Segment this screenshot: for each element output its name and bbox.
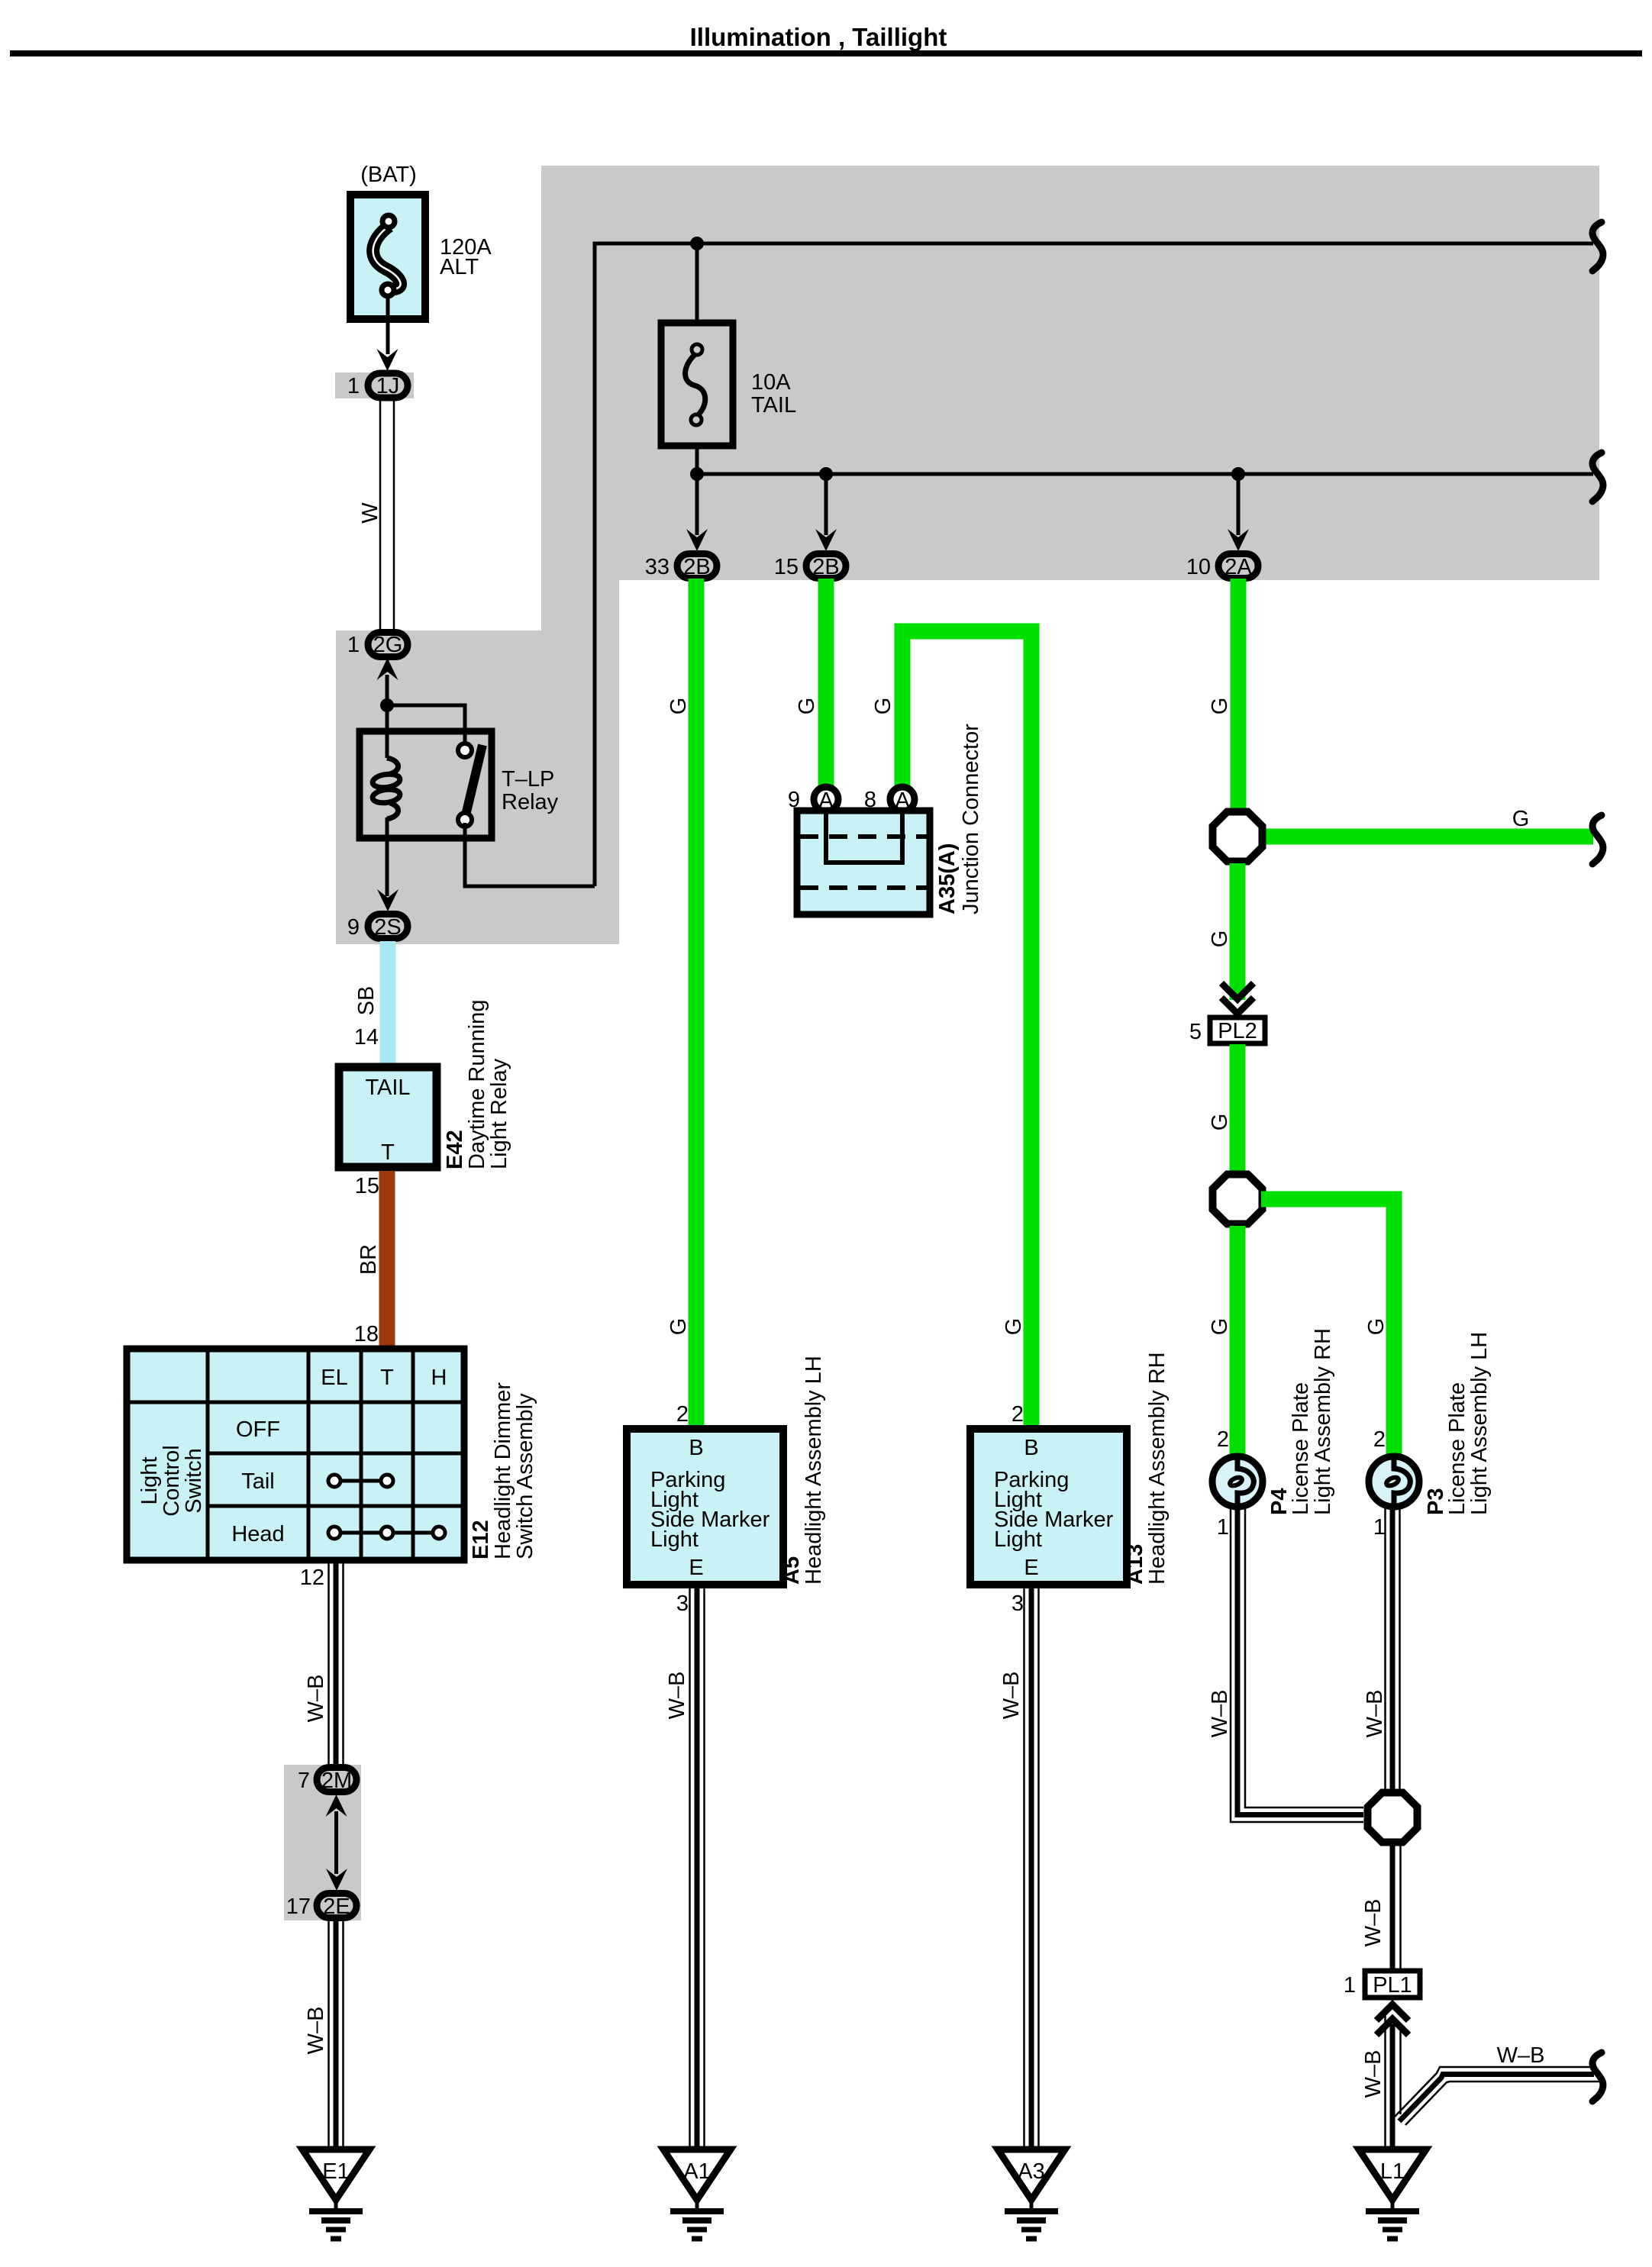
- connector PL1 box: [1365, 1971, 1420, 1998]
- svg-text:A5: A5: [779, 1556, 804, 1585]
- wire W-B from 2E to ground E1: [329, 1920, 344, 2149]
- svg-text:T: T: [380, 1366, 394, 1390]
- relay T-LP : switch blade: [466, 745, 482, 815]
- connector 2E oval: [317, 1894, 357, 1918]
- fuse 10A TAIL : body: [661, 323, 733, 446]
- license plate light P3 : bulb circle: [1369, 1456, 1419, 1507]
- svg-text:Switch Assembly: Switch Assembly: [513, 1393, 537, 1559]
- svg-text:BR: BR: [357, 1244, 381, 1275]
- svg-text:Light Relay: Light Relay: [487, 1058, 511, 1169]
- svg-text:E1: E1: [322, 2159, 349, 2184]
- svg-text:7: 7: [298, 1769, 310, 1793]
- switch E12 (Headlight Dimmer Switch Assembly) : body: [127, 1349, 464, 1560]
- svg-text:G: G: [1208, 930, 1232, 948]
- svg-text:W–B: W–B: [304, 1675, 328, 1723]
- svg-text:12: 12: [300, 1566, 324, 1590]
- switch E12 : grid lines: [208, 1349, 413, 1560]
- svg-text:2: 2: [676, 1402, 689, 1427]
- svg-text:2: 2: [1217, 1427, 1229, 1452]
- svg-text:A35(A): A35(A): [935, 843, 960, 914]
- wire G branch from lower splice to license plate light P3: [1261, 1199, 1394, 1455]
- svg-text:3: 3: [1012, 1591, 1024, 1616]
- junction connector A35 : pin 8 terminal circle: [890, 787, 915, 811]
- node junction dot at 10A TAIL fuse top: [690, 237, 704, 250]
- license plate light P4 : bulb circle: [1212, 1456, 1263, 1507]
- svg-text:W–B: W–B: [304, 2007, 328, 2055]
- wire from fuse 10A TAIL to lower bus: [695, 446, 699, 474]
- svg-text:H: H: [431, 1366, 447, 1390]
- wire from bus to 15 2B: [824, 474, 828, 535]
- svg-text:2B: 2B: [683, 555, 710, 579]
- connector 2S oval: [368, 914, 408, 939]
- wire from ALT fuse to connector 1J: [386, 296, 390, 354]
- relay E42 box (Daytime Running Light Relay): [339, 1067, 437, 1167]
- svg-text:A3: A3: [1018, 2159, 1044, 2184]
- wire W-B from bottom splice to connector PL1: [1399, 1846, 1402, 1970]
- svg-text:A13: A13: [1123, 1544, 1147, 1585]
- node junction dot above 33 2B: [690, 467, 704, 481]
- svg-text:W–B: W–B: [999, 1672, 1024, 1720]
- junction block shading band behind connector 1J: [335, 372, 414, 398]
- junction connector A35(A) : body: [797, 811, 930, 914]
- wire from relay switch to bus riser: [465, 823, 595, 886]
- wire: top feed bus from relay riser to right edge: [595, 243, 1593, 886]
- relay T-LP : fixed contact (top): [458, 743, 472, 757]
- connector 2B oval (pin 33): [677, 554, 717, 579]
- svg-text:Switch: Switch: [182, 1448, 206, 1513]
- connector arrow into 10 2A: [1228, 529, 1249, 551]
- svg-text:OFF: OFF: [236, 1417, 280, 1442]
- wire G from 10 2A to splice octagon: [1231, 579, 1247, 810]
- svg-text:G: G: [666, 1318, 691, 1336]
- svg-text:1J: 1J: [376, 374, 400, 398]
- wire W-B from P3 to splice octagon (bottom): [1386, 1507, 1400, 1791]
- svg-text:EL: EL: [321, 1366, 347, 1390]
- svg-text:2S: 2S: [374, 915, 401, 940]
- connector 1J oval: [368, 373, 408, 398]
- connector PL2 box: [1210, 1017, 1265, 1043]
- svg-text:2M: 2M: [321, 1769, 352, 1793]
- svg-text:License Plate: License Plate: [1289, 1382, 1313, 1515]
- wire W-B from A13 to ground A3: [1024, 1585, 1039, 2149]
- svg-text:E42: E42: [443, 1130, 467, 1169]
- svg-text:W–B: W–B: [1497, 2043, 1545, 2068]
- splice octagon (upper): [1213, 812, 1263, 862]
- node junction dot above 15 2B: [819, 467, 833, 481]
- svg-text:Head: Head: [231, 1522, 284, 1546]
- wire BR from E42 to switch E12: [379, 1171, 395, 1349]
- svg-text:W–B: W–B: [1361, 1899, 1386, 1947]
- svg-text:Headlight Dimmer: Headlight Dimmer: [491, 1382, 515, 1559]
- svg-text:G: G: [1208, 698, 1232, 715]
- svg-text:3: 3: [676, 1591, 689, 1616]
- node junction dot above T-LP relay: [380, 698, 394, 712]
- switch E12 : Tail position contacts: [334, 1479, 387, 1483]
- svg-text:2B: 2B: [812, 555, 839, 579]
- headlight assembly LH A5 : parking light box: [627, 1429, 783, 1585]
- svg-text:17: 17: [286, 1895, 311, 1919]
- svg-text:T–LP: T–LP: [502, 767, 554, 792]
- svg-text:TAIL: TAIL: [365, 1075, 410, 1100]
- wire break curl at right end of lower bus: [1592, 453, 1603, 501]
- wire from junction to relay switch contact: [387, 705, 465, 745]
- relay T-LP : moving contact (bottom): [458, 813, 472, 827]
- svg-text:B: B: [689, 1436, 703, 1460]
- fuse 10A TAIL : fuse symbol: [686, 353, 705, 417]
- wire G from lower splice to license plate light P4: [1230, 1226, 1246, 1455]
- svg-text:W–B: W–B: [665, 1672, 689, 1720]
- wire between 2M and 2E: [334, 1811, 338, 1874]
- wire break curl at right end of top feed bus: [1592, 222, 1603, 271]
- svg-text:Control: Control: [160, 1445, 184, 1517]
- svg-text:PL2: PL2: [1218, 1019, 1257, 1043]
- svg-text:10: 10: [1186, 555, 1211, 579]
- wire break curl at right end of G run: [1592, 815, 1603, 864]
- svg-text:G: G: [1364, 1318, 1389, 1336]
- wire W-B from P4 to splice octagon (bottom): [1231, 1507, 1363, 1822]
- connector arrow into 15 2B: [815, 529, 837, 551]
- svg-text:ALT: ALT: [440, 255, 479, 279]
- junction block shading band behind connectors 2M / 2E: [284, 1765, 361, 1920]
- svg-text:W–B: W–B: [1361, 2050, 1386, 2098]
- svg-text:Light Assembly RH: Light Assembly RH: [1311, 1328, 1335, 1515]
- svg-text:10A: 10A: [751, 370, 791, 395]
- svg-text:18: 18: [354, 1322, 379, 1346]
- svg-text:(BAT): (BAT): [360, 163, 417, 187]
- svg-text:Light: Light: [650, 1527, 699, 1552]
- svg-text:Headlight Assembly RH: Headlight Assembly RH: [1145, 1352, 1170, 1585]
- svg-text:2: 2: [1373, 1427, 1386, 1452]
- relay T-LP : box: [360, 731, 492, 838]
- wire SB from 2S to relay E42: [380, 941, 396, 1067]
- svg-text:E12: E12: [469, 1520, 493, 1559]
- wire W-B from PL1 to ground L1: [1386, 2015, 1401, 2149]
- ground A1: [663, 2149, 731, 2200]
- svg-text:15: 15: [355, 1174, 379, 1198]
- svg-text:Junction Connector: Junction Connector: [959, 724, 983, 914]
- svg-text:14: 14: [354, 1025, 379, 1050]
- svg-text:33: 33: [645, 555, 670, 579]
- svg-text:A1: A1: [683, 2159, 710, 2184]
- junction block shading (instrument panel J/B, upper region and relay arm): [336, 166, 1599, 944]
- svg-text:TAIL: TAIL: [751, 393, 796, 418]
- wire break curl at right end of W-B branch: [1592, 2053, 1603, 2101]
- svg-text:G: G: [1002, 1318, 1026, 1336]
- relay T-LP : coil: [387, 758, 398, 774]
- svg-text:Light: Light: [137, 1457, 162, 1505]
- connector arrow into 2E (downward): [326, 1869, 347, 1891]
- relay T-LP : wire through coil: [386, 817, 389, 896]
- wire G from PL2 to splice octagon (lower): [1230, 1044, 1246, 1173]
- fuse 120A ALT : fusible link symbol: [373, 226, 401, 289]
- connector arrow into 33 2B: [686, 529, 708, 551]
- wire G from junction connector A35 pin 8 to headlight A13: [902, 631, 1031, 1429]
- svg-text:E: E: [689, 1556, 703, 1580]
- svg-text:1: 1: [1217, 1515, 1229, 1540]
- connector arrow into PL2 (double chevron down): [1221, 983, 1254, 999]
- connector 2G oval: [368, 633, 408, 657]
- connector 2B oval (pin 15): [806, 554, 846, 579]
- svg-text:G: G: [795, 698, 819, 715]
- wire W-B branch to right edge (diagonal and horizontal): [1399, 2075, 1594, 2122]
- svg-text:9: 9: [347, 915, 360, 940]
- connector arrow out of 2M (upward): [326, 1795, 347, 1817]
- svg-text:PL1: PL1: [1373, 1973, 1412, 1998]
- wire G from splice octagon to right edge: [1261, 829, 1593, 845]
- license plate light P4 : filament: [1237, 1456, 1254, 1507]
- svg-text:SB: SB: [354, 986, 379, 1016]
- license plate light P3 : filament: [1394, 1456, 1410, 1507]
- ground E1: [302, 2149, 369, 2200]
- svg-text:1: 1: [347, 374, 360, 398]
- junction connector A35(A) : internal bus bar: [826, 814, 902, 863]
- svg-text:W–B: W–B: [1208, 1690, 1232, 1738]
- wire G from 15 2B to junction connector A35 pin 9: [818, 579, 834, 786]
- wire from bus to fuse 10A TAIL: [695, 243, 699, 323]
- svg-text:2: 2: [1012, 1402, 1024, 1427]
- wire W-B from A5 to ground A1: [690, 1585, 705, 2149]
- svg-text:Tail: Tail: [241, 1469, 275, 1494]
- svg-text:Light: Light: [994, 1527, 1042, 1552]
- header rule: [10, 50, 1642, 56]
- wire from bus to 10 2A: [1237, 474, 1241, 535]
- wire W-B from E12 pin 12 to 2M: [329, 1560, 344, 1765]
- wire G from 33 2B to headlight A5: [689, 579, 705, 1429]
- junction connector A35(A) : dashed separators: [800, 834, 927, 839]
- svg-text:Light Assembly LH: Light Assembly LH: [1467, 1332, 1492, 1515]
- svg-text:T: T: [381, 1140, 395, 1165]
- junction connector A35 : pin 9 terminal circle: [814, 787, 838, 811]
- ground L1: [1359, 2149, 1426, 2200]
- connector arrow out of 2G (upward): [377, 658, 398, 680]
- svg-text:Relay: Relay: [502, 790, 559, 814]
- svg-text:5: 5: [1189, 1020, 1202, 1044]
- svg-text:B: B: [1024, 1436, 1038, 1460]
- svg-text:2E: 2E: [323, 1895, 350, 1919]
- node junction dot above 10 2A: [1231, 467, 1245, 481]
- svg-text:G: G: [1512, 807, 1530, 831]
- svg-text:G: G: [871, 698, 895, 715]
- ground A3: [998, 2149, 1065, 2200]
- svg-text:Headlight Assembly LH: Headlight Assembly LH: [802, 1356, 826, 1585]
- svg-text:G: G: [666, 698, 691, 715]
- svg-text:2G: 2G: [373, 633, 403, 657]
- connector 2M oval: [317, 1768, 357, 1792]
- svg-text:1: 1: [1373, 1515, 1386, 1540]
- svg-text:Daytime Running: Daytime Running: [465, 1000, 489, 1169]
- connector arrow into 1J: [377, 349, 398, 371]
- connector arrow into 2S (downward): [377, 889, 398, 911]
- wire from 2G arrow to relay coil: [386, 675, 389, 758]
- splice octagon (bottom, W-B junction): [1368, 1793, 1418, 1843]
- splice octagon (lower): [1213, 1175, 1263, 1224]
- wire: lower distribution bus to right edge: [697, 472, 1593, 476]
- svg-text:1: 1: [347, 633, 360, 657]
- svg-text:2A: 2A: [1224, 555, 1252, 579]
- connector arrow out of PL1 (double chevron up): [1376, 2004, 1408, 2020]
- svg-text:15: 15: [774, 555, 799, 579]
- fuse 120A ALT : body: [350, 195, 425, 319]
- headlight assembly RH A13 : parking light box: [970, 1429, 1127, 1585]
- wire from bus to 33 2B: [695, 474, 699, 535]
- svg-text:W–B: W–B: [1363, 1690, 1387, 1738]
- connector 2A oval: [1218, 554, 1258, 579]
- svg-text:W: W: [358, 502, 382, 524]
- switch E12 : Head position contacts: [334, 1531, 439, 1535]
- wire G from splice octagon to connector PL2: [1230, 863, 1246, 1000]
- svg-text:L1: L1: [1380, 2159, 1405, 2184]
- svg-text:1: 1: [1344, 1973, 1356, 1998]
- svg-text:Illumination , Taillight: Illumination , Taillight: [690, 23, 947, 51]
- svg-text:License Plate: License Plate: [1445, 1382, 1470, 1515]
- svg-text:G: G: [1208, 1318, 1232, 1336]
- svg-text:E: E: [1024, 1556, 1038, 1580]
- svg-text:G: G: [1208, 1114, 1232, 1131]
- wire W from 1J to 2G (white wire, double line): [380, 400, 394, 630]
